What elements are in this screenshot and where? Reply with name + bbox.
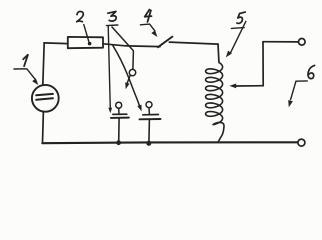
wire bbox=[169, 42, 218, 44]
terminal X2 bbox=[298, 139, 305, 146]
wire bbox=[118, 108, 120, 114]
pivot circle bbox=[129, 69, 135, 75]
capacitor C1 top plate bbox=[113, 113, 127, 115]
label 1 bbox=[23, 55, 28, 66]
wire bbox=[263, 41, 299, 43]
resistor R 2 bbox=[68, 37, 103, 48]
wire bbox=[148, 119, 151, 143]
switch S 4 (blade) bbox=[158, 37, 173, 48]
wire bbox=[43, 43, 44, 85]
capacitor C2 bottom plate bbox=[140, 118, 161, 120]
terminal X1 bbox=[299, 39, 306, 46]
source inner bar top bbox=[36, 94, 53, 95]
wire bbox=[213, 122, 224, 141]
wire bbox=[217, 44, 220, 62]
wire bbox=[103, 44, 160, 47]
leader 1 bbox=[14, 69, 35, 79]
contact circle K1 bbox=[116, 102, 122, 108]
label 5 bbox=[237, 12, 245, 23]
long curved arm with arrow to C2 plate bbox=[113, 46, 139, 105]
wire bbox=[42, 141, 297, 144]
wire bbox=[118, 118, 120, 142]
tap arrow into coil bbox=[229, 84, 236, 89]
wire bbox=[42, 111, 45, 142]
label 2 bbox=[77, 11, 84, 21]
label 4 bbox=[145, 10, 152, 22]
leader 2 bbox=[84, 25, 89, 42]
source inner bar bottom bbox=[36, 98, 53, 99]
wire bbox=[236, 85, 263, 87]
capacitor C2 top plate bbox=[143, 114, 159, 116]
leader 6 bbox=[296, 80, 307, 82]
inductor coil L 5 bbox=[206, 63, 223, 125]
label 3 bbox=[108, 12, 116, 22]
pivot arm arrow toward K1 bbox=[127, 76, 129, 83]
wire bbox=[148, 108, 150, 115]
leader 3 bbox=[107, 24, 118, 27]
capacitor C1 bottom plate bbox=[111, 117, 129, 119]
junction dot bbox=[116, 140, 121, 145]
wire bbox=[262, 42, 264, 86]
contact circle K2 bbox=[146, 102, 152, 108]
leader 5 bbox=[231, 27, 244, 30]
generator/battery G 1 bbox=[32, 85, 59, 112]
wire bbox=[44, 42, 68, 45]
junction dot bbox=[146, 141, 151, 146]
leader 4 bbox=[140, 24, 154, 31]
armature link from 3 down to pivot bbox=[112, 27, 133, 69]
label 6 bbox=[308, 65, 315, 78]
leader dot of label 2 bbox=[88, 42, 92, 46]
